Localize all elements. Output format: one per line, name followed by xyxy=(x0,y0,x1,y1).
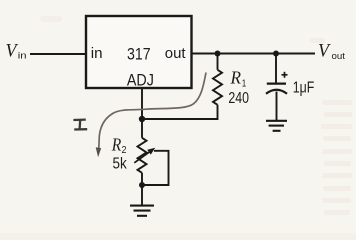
svg-text:5k: 5k xyxy=(113,156,128,173)
ground below capacitor xyxy=(266,121,287,131)
node Vout label xyxy=(318,41,345,63)
current I label xyxy=(73,120,87,130)
ground below R2 xyxy=(130,206,154,216)
svg-text:R: R xyxy=(111,134,121,154)
node Vin label xyxy=(6,41,27,62)
svg-text:1μF: 1μF xyxy=(293,79,315,96)
svg-text:317: 317 xyxy=(127,45,151,63)
wire capacitor bottom lead xyxy=(276,92,278,121)
resistor R2 (potentiometer) xyxy=(111,134,147,172)
svg-text:out: out xyxy=(332,51,346,62)
svg-text:240: 240 xyxy=(228,90,249,107)
junction node ADJ xyxy=(139,116,145,122)
svg-text:R: R xyxy=(230,68,241,88)
regulator U1 317 box xyxy=(86,16,192,89)
capacitor C1 1uF xyxy=(266,54,314,97)
wire wiper loop to bottom terminal xyxy=(144,151,169,185)
potentiometer wiper arrow xyxy=(134,148,155,163)
wire R2 bottom lead xyxy=(141,173,143,205)
svg-text:ADJ: ADJ xyxy=(127,70,154,89)
junction node at R1 top xyxy=(215,51,221,57)
wire ADJ node to R2 xyxy=(141,119,143,138)
svg-text:in: in xyxy=(91,45,103,62)
wire out pin to Vout xyxy=(192,53,316,55)
svg-text:1: 1 xyxy=(242,79,247,90)
wire R1 bottom lead to ADJ node xyxy=(142,105,218,119)
wire R1 top lead xyxy=(217,54,219,70)
junction node at capacitor top xyxy=(273,51,279,57)
faint page show-through smudges (decorative) xyxy=(40,16,352,215)
wire ADJ pin down xyxy=(141,88,143,119)
current I annotation arrow (grey) xyxy=(96,73,206,158)
svg-text:2: 2 xyxy=(122,145,127,156)
svg-text:in: in xyxy=(18,50,27,61)
junction node R2 bottom xyxy=(139,182,145,188)
svg-text:out: out xyxy=(165,45,187,62)
wire Vin to in pin xyxy=(30,53,86,55)
resistor R1 xyxy=(213,68,249,108)
